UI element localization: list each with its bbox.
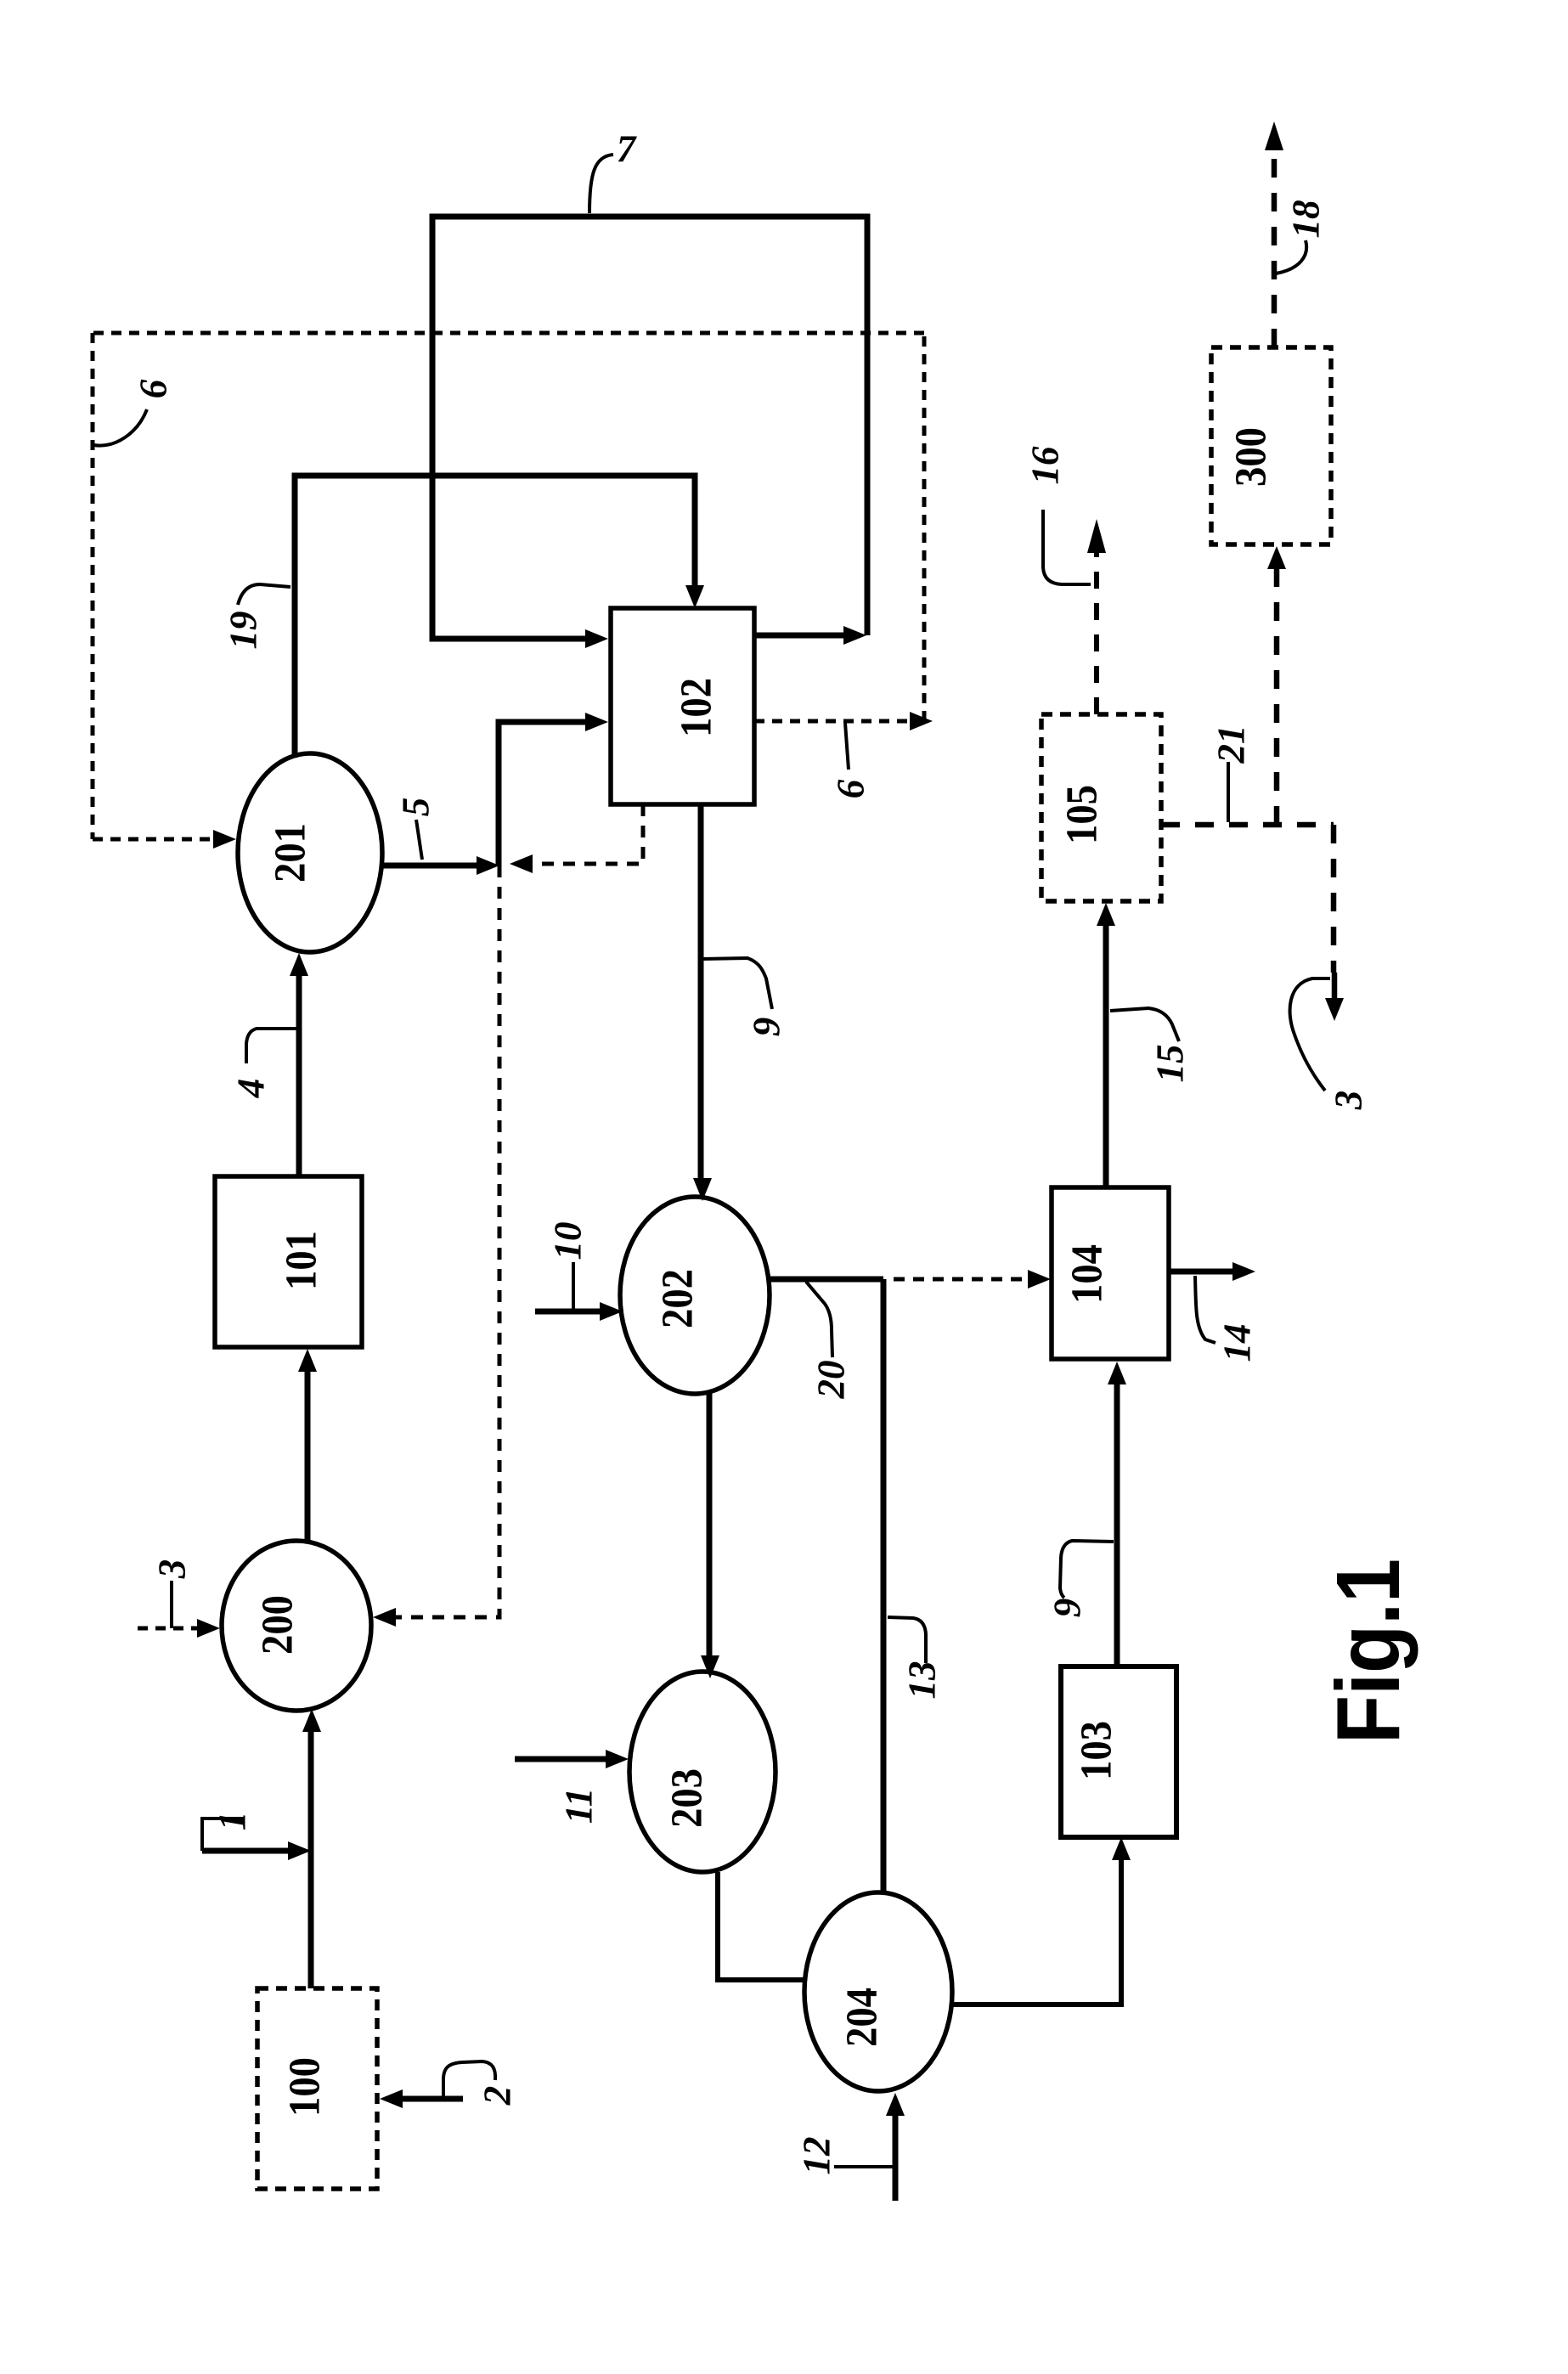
svg-text:12: 12	[795, 2137, 838, 2175]
stream 6 dashed recycle from 102 right	[754, 719, 911, 724]
stream 9 label	[702, 958, 772, 1009]
stream 11 arrow into 203	[515, 1757, 608, 1762]
wire 204 to 103	[952, 1858, 1121, 2005]
svg-text:9: 9	[745, 1018, 787, 1037]
stream 3 dashed exit down	[1331, 825, 1337, 973]
svg-text:203: 203	[663, 1768, 712, 1828]
stream 4 label	[246, 1029, 297, 1063]
stream 7 recycle loop from 102 right	[754, 633, 846, 639]
stream 19 wire 201 up over to 102	[295, 476, 695, 758]
svg-text:3: 3	[150, 1559, 193, 1580]
stream 13 wire down to 204	[881, 1279, 887, 1893]
stream 4 wire 101 to 201	[296, 975, 302, 1176]
stream 15 wire 104 to 105	[1103, 924, 1109, 1187]
ellipse 204	[804, 1892, 952, 2091]
stream 10 label	[572, 1262, 575, 1311]
svg-text:20: 20	[809, 1361, 852, 1400]
stream 20 wire from 202	[770, 1277, 883, 1283]
svg-text:102: 102	[673, 678, 721, 737]
stream 16 label	[1043, 510, 1091, 584]
svg-text:16: 16	[1024, 446, 1066, 485]
stream 20 dashed into 104	[894, 1277, 1029, 1282]
box 102	[611, 608, 754, 804]
svg-text:103: 103	[1073, 1721, 1121, 1780]
stream 14 label	[1195, 1276, 1215, 1343]
stream 6 label near 102	[845, 723, 849, 770]
svg-text:201: 201	[267, 823, 315, 882]
box 105 (dashed unit)	[1041, 714, 1161, 901]
stream 21 label tick	[1227, 762, 1230, 822]
stream 3 exit label	[1290, 978, 1330, 1091]
stream 5 label	[416, 820, 422, 860]
stream 12 label	[834, 2165, 895, 2168]
stream 20 label	[806, 1282, 832, 1357]
box 300 (dashed unit)	[1211, 347, 1331, 544]
dashed wire up into 300	[1274, 566, 1280, 825]
svg-text:200: 200	[254, 1595, 302, 1655]
svg-text:204: 204	[838, 1988, 887, 2047]
svg-text:13: 13	[900, 1661, 943, 1700]
stream 2 arrow into 100	[401, 2096, 463, 2102]
stream 9 wire 103 to 104	[1114, 1383, 1120, 1666]
svg-text:101: 101	[278, 1231, 326, 1290]
stream 18 label	[1276, 240, 1306, 273]
svg-text:6: 6	[829, 779, 871, 798]
svg-text:18: 18	[1284, 200, 1327, 239]
svg-text:202: 202	[654, 1269, 702, 1328]
svg-text:10: 10	[546, 1222, 589, 1260]
svg-text:104: 104	[1063, 1244, 1112, 1304]
dashed stub from 102 bottom to junction	[530, 804, 643, 864]
svg-text:1: 1	[211, 1812, 253, 1831]
stream 16 dashed arrow up from 105	[1094, 550, 1099, 714]
stream 9 second label	[1060, 1541, 1114, 1598]
ellipse 203	[629, 1672, 776, 1872]
box 101	[215, 1176, 362, 1347]
svg-text:100: 100	[281, 2057, 330, 2117]
svg-text:6: 6	[132, 379, 174, 398]
svg-text:2: 2	[476, 2086, 518, 2106]
ellipse 201	[238, 753, 382, 952]
svg-text:7: 7	[617, 127, 637, 170]
svg-text:Fig.1: Fig.1	[1318, 1559, 1419, 1744]
stream 13 label	[888, 1617, 926, 1663]
wire 202 to 203	[707, 1391, 713, 1658]
stream 19 label	[238, 584, 290, 605]
stream 7 label	[589, 155, 613, 213]
ellipse 202	[620, 1197, 770, 1394]
stream 5 wire from 201	[382, 863, 479, 869]
dashed wire junction down to 200	[393, 866, 499, 1617]
wire 203 to 204	[718, 1872, 804, 1980]
svg-text:300: 300	[1227, 427, 1276, 487]
stream 1 arrow into riser	[202, 1848, 290, 1854]
svg-text:3: 3	[1327, 1091, 1369, 1111]
stream 18 dashed arrow from 300	[1272, 149, 1278, 347]
box 104	[1052, 1187, 1169, 1359]
box 103	[1061, 1666, 1176, 1837]
svg-text:14: 14	[1215, 1324, 1258, 1362]
wire 100 to 200	[308, 1731, 314, 1988]
svg-text:19: 19	[222, 612, 264, 650]
stream 6 label top left	[93, 409, 147, 446]
stream 3 dashed into 200	[138, 1627, 201, 1631]
stream 1 label bracket	[202, 1819, 245, 1851]
svg-text:21: 21	[1210, 725, 1252, 764]
stream 12 arrow into 204	[893, 2114, 899, 2201]
ellipse 200	[222, 1541, 371, 1711]
stream 21 dashed from 105 right	[1161, 822, 1334, 828]
svg-text:5: 5	[394, 798, 437, 817]
svg-text:4: 4	[229, 1079, 272, 1099]
stream 15 label	[1110, 1008, 1179, 1041]
stream 14 arrow out of 104	[1169, 1269, 1235, 1275]
stream 10 arrow into 202	[535, 1309, 601, 1315]
stream 9 wire 102 to 202	[698, 804, 704, 1181]
svg-text:105: 105	[1058, 785, 1107, 844]
svg-text:9: 9	[1046, 1599, 1088, 1618]
svg-text:11: 11	[557, 1788, 600, 1824]
svg-text:15: 15	[1148, 1045, 1191, 1083]
stream 2 label	[443, 2061, 495, 2096]
wire 200 to 101	[305, 1369, 311, 1540]
stream 3 label tick	[170, 1581, 173, 1628]
node junction 5 riser into 102	[499, 722, 588, 866]
box 100 (dashed unit)	[257, 1988, 377, 2189]
